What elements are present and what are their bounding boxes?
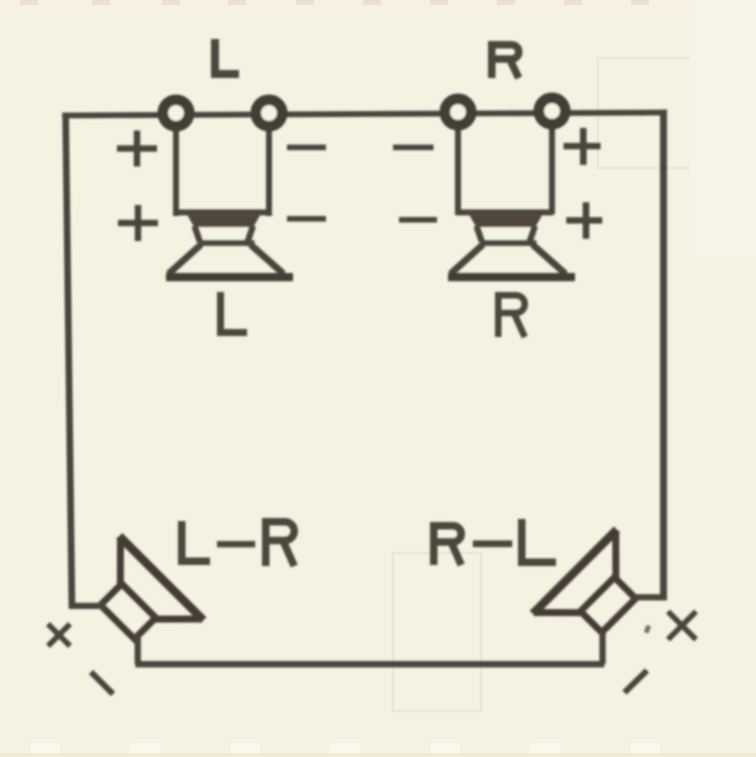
- label R bottom: [498, 295, 525, 337]
- speck near R-L speaker: [644, 625, 651, 634]
- label L top: [215, 39, 239, 74]
- speaker R (front view): [448, 209, 575, 281]
- minus mark R inner top: [393, 145, 434, 151]
- label L bottom: [221, 292, 248, 333]
- minus mark R inner bottom: [399, 217, 437, 223]
- terminal L-: [256, 100, 282, 126]
- wire: right vertical: [660, 110, 667, 601]
- plus mark R outer top: [564, 128, 601, 165]
- minus mark rotated, bottom left: [91, 672, 113, 694]
- speaker L (front view): [166, 209, 293, 281]
- ghost print-through marks: [393, 58, 748, 711]
- plus mark L outer top: [117, 131, 157, 167]
- wire: stub bottom from R-L speaker: [599, 631, 605, 664]
- wire: L speaker right drop: [266, 126, 272, 216]
- x mark bottom left: [48, 624, 70, 646]
- label R-L: [434, 519, 556, 565]
- wire: L speaker left drop: [173, 126, 179, 216]
- terminal L+: [163, 100, 189, 126]
- wire: stub left to L-R speaker: [69, 603, 105, 609]
- wire: stub bottom from L-R speaker: [135, 634, 141, 664]
- paper bottom edge strip: [0, 743, 756, 757]
- speaker L-R (rotated 45, bottom left): [75, 536, 203, 664]
- x mark bottom right: [668, 612, 696, 640]
- wire: top horizontal bus: [62, 110, 667, 119]
- wire: stub right to R-L speaker: [632, 594, 663, 600]
- minus mark L inner bottom: [287, 216, 326, 222]
- minus mark rotated, bottom right: [625, 671, 648, 693]
- plus mark L outer bottom: [118, 205, 158, 241]
- wire: R speaker right drop: [549, 124, 555, 214]
- paper top edge strip: [0, 0, 756, 6]
- label R top: [492, 45, 519, 78]
- minus mark L inner top: [287, 145, 326, 151]
- speaker R-L (rotated 45, bottom right): [533, 530, 661, 658]
- label L-R: [182, 521, 295, 566]
- wire: R speaker left drop: [455, 125, 461, 215]
- terminal R-: [445, 99, 471, 125]
- wire: left vertical: [62, 113, 75, 609]
- wire: bottom horizontal: [135, 661, 604, 667]
- plus mark R outer bottom: [566, 202, 602, 239]
- terminal R+: [539, 98, 565, 124]
